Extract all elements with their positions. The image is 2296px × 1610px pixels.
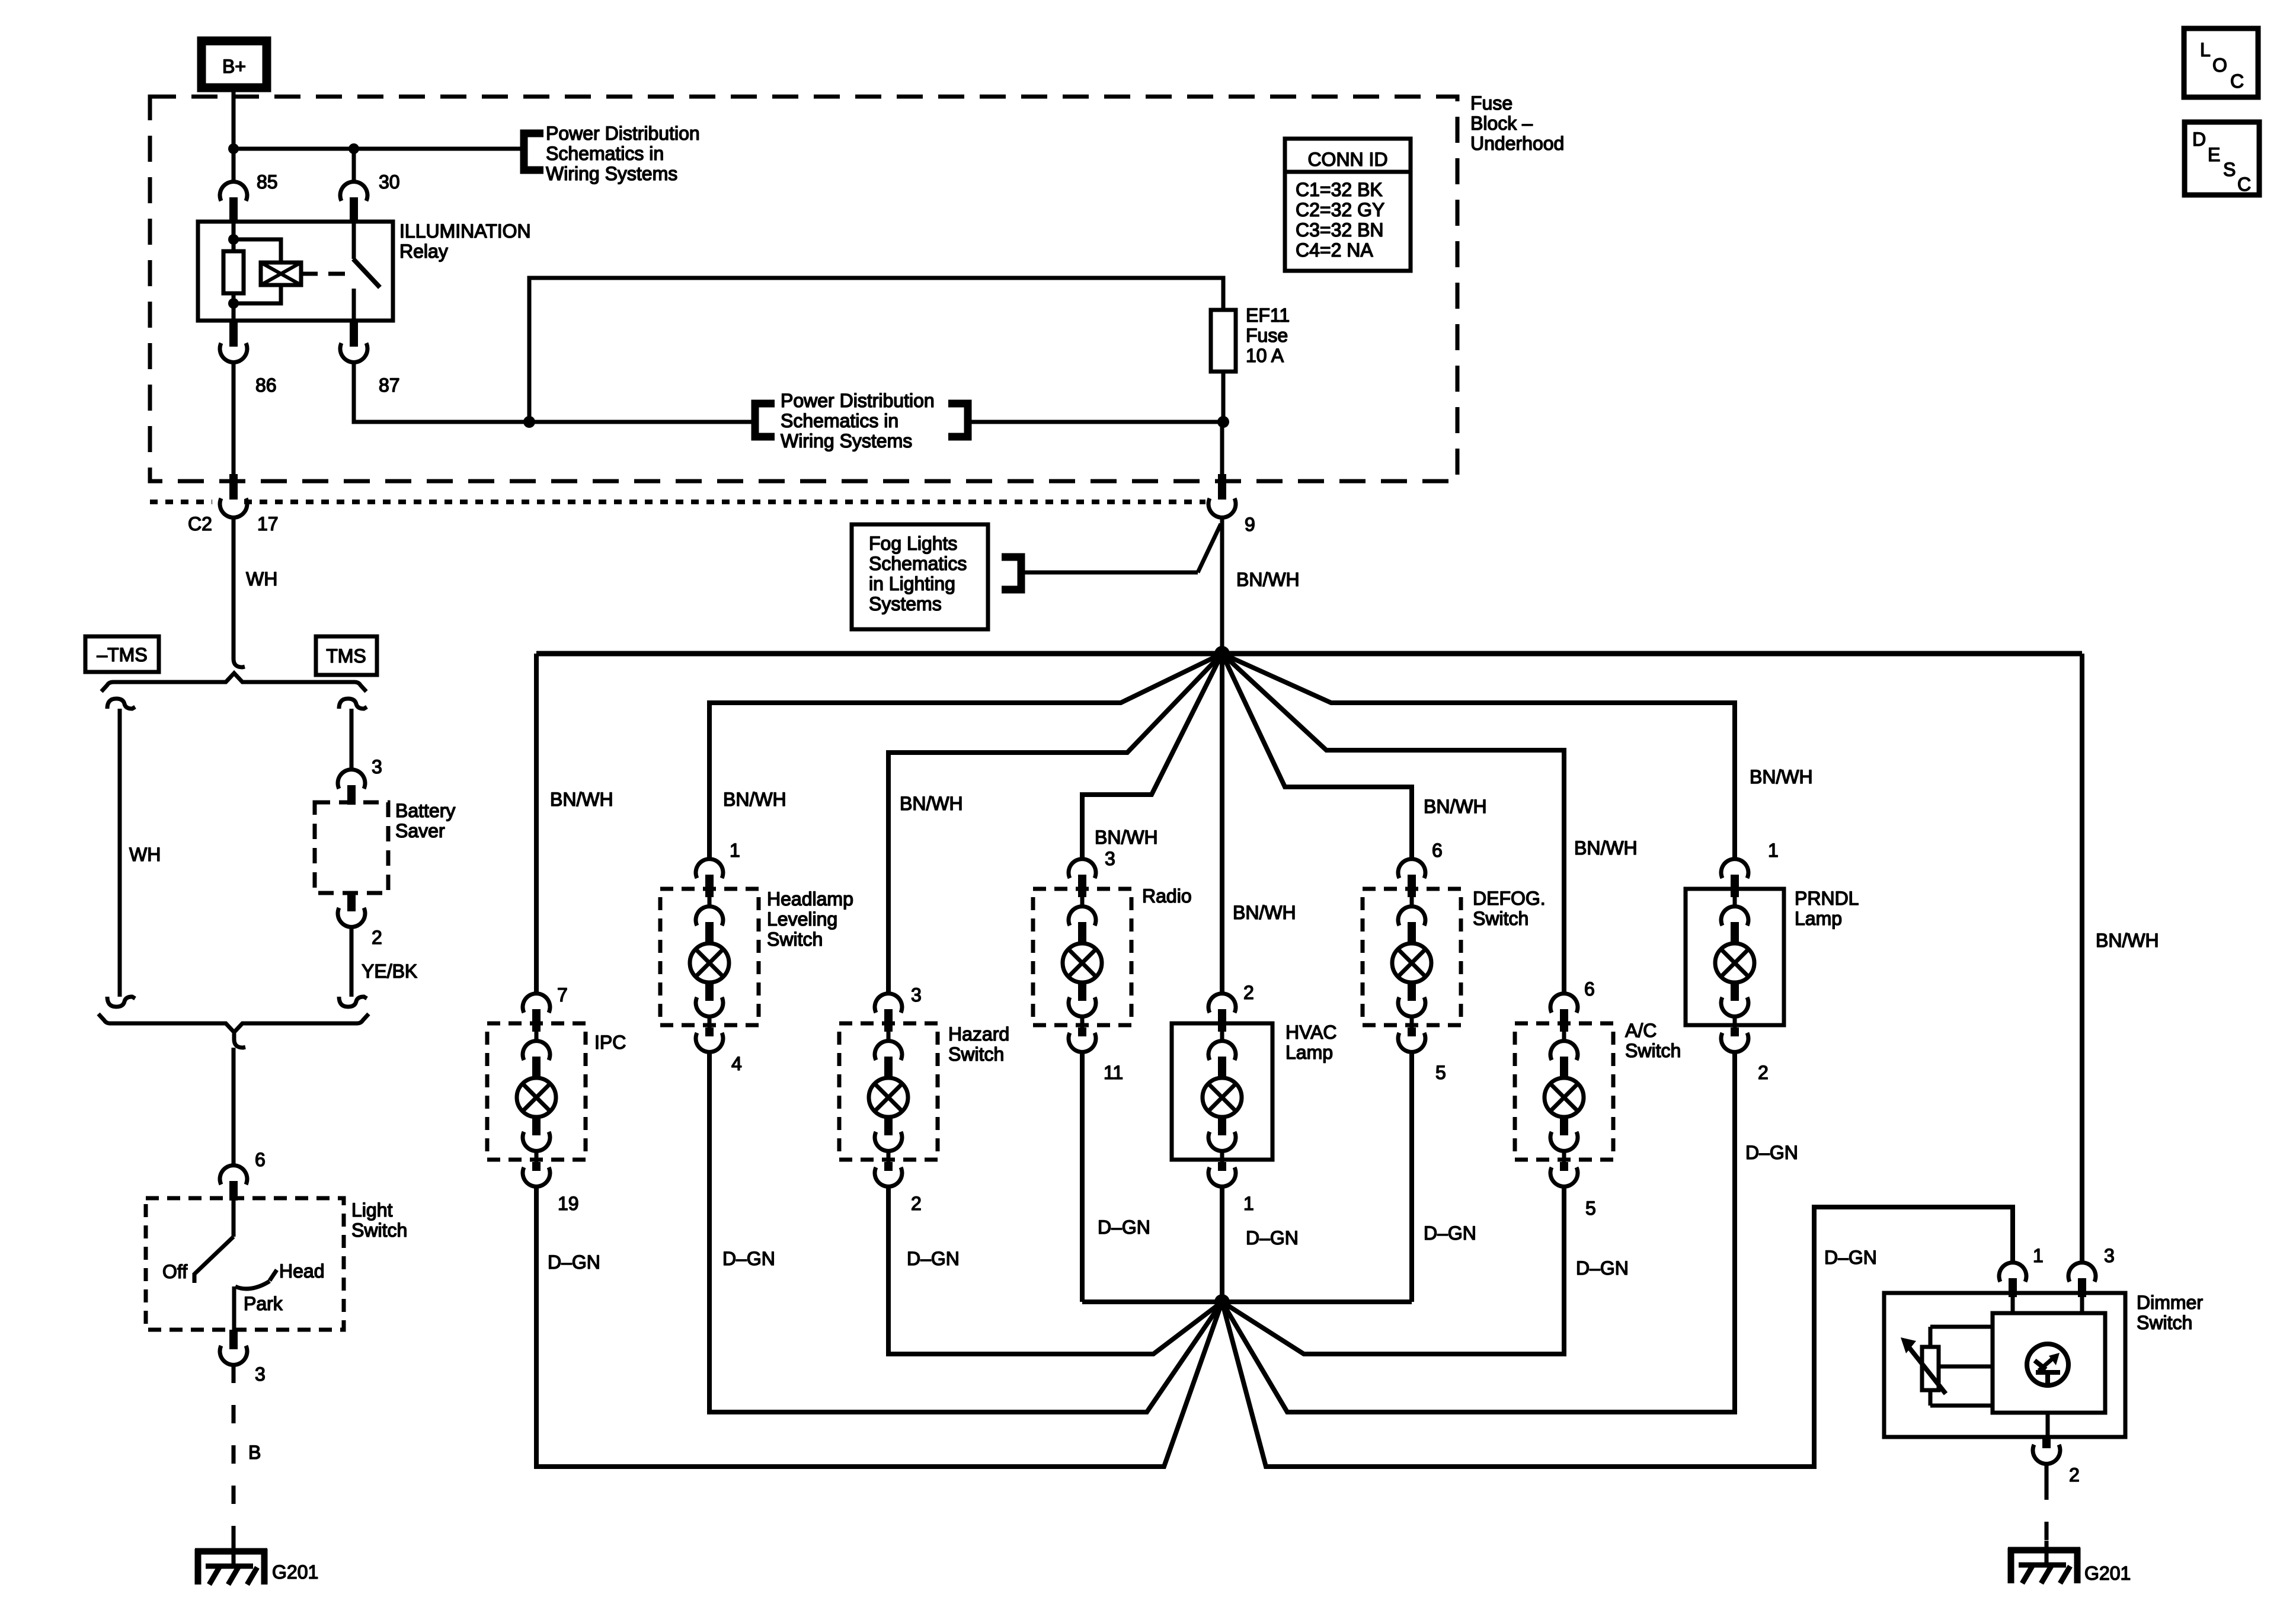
svg-text:3: 3 xyxy=(911,984,922,1006)
connector pin (bottom) of A/C Switch xyxy=(1550,1150,1578,1186)
svg-text:Wiring Systems: Wiring Systems xyxy=(546,163,677,184)
connector C2 terminal 17 xyxy=(220,474,247,517)
distribution splice node (bottom) xyxy=(1214,1294,1230,1310)
svg-text:3: 3 xyxy=(1105,848,1115,869)
svg-text:Lamp: Lamp xyxy=(1285,1042,1333,1063)
connector pin 2 (dimmer switch) xyxy=(2033,1437,2060,1464)
internal connector (bottom) of PRNDL Lamp xyxy=(1721,982,1748,1016)
svg-text:S: S xyxy=(2223,159,2236,180)
svg-text:Park: Park xyxy=(244,1293,283,1314)
svg-text:Lamp: Lamp xyxy=(1795,908,1842,929)
svg-text:B: B xyxy=(248,1442,261,1463)
svg-text:E: E xyxy=(2208,144,2220,165)
svg-text:5: 5 xyxy=(1435,1062,1446,1083)
reference bracket: fog lights xyxy=(1002,557,1021,590)
illumination lamp of PRNDL Lamp xyxy=(1715,943,1754,982)
relay coil resistor xyxy=(223,222,244,321)
connector pin (bottom) of IPC xyxy=(523,1150,550,1186)
wire WH from C2 down xyxy=(232,517,236,659)
svg-text:BN/WH: BN/WH xyxy=(1574,837,1638,859)
light switch wiper blade xyxy=(194,1237,234,1283)
internal connector (bottom) of Radio xyxy=(1069,982,1096,1016)
internal connector (top) of PRNDL Lamp xyxy=(1721,907,1748,943)
left branch splice hook (top) xyxy=(107,699,135,709)
label Hazard Switch xyxy=(948,1023,1009,1065)
junction node at relay pin 30 drop xyxy=(348,143,359,154)
Head contact tick xyxy=(270,1270,277,1281)
connector C2 boundary dotted line xyxy=(150,500,1205,504)
connector pin 85 xyxy=(220,182,247,223)
branch brace (bottom) xyxy=(98,1014,369,1032)
wire: fuse output down to connector pin 9 xyxy=(1220,422,1224,474)
connector pin 30 xyxy=(340,182,367,223)
connector pin (bottom) of Headlamp Leveling Switch xyxy=(696,1015,723,1052)
connector pin 3 (light switch) xyxy=(220,1330,247,1365)
splice hook below merge xyxy=(234,1033,245,1048)
internal connector (bottom) of IPC xyxy=(523,1117,550,1151)
HVAC Lamp box xyxy=(1172,1023,1272,1160)
Light Switch dashed box xyxy=(146,1198,344,1330)
fan wire to PRNDL column xyxy=(1222,654,1735,860)
svg-text:Fuse: Fuse xyxy=(1246,325,1288,346)
wire radio output down xyxy=(1080,1052,1085,1302)
svg-text:2: 2 xyxy=(2069,1464,2080,1486)
fan wire to A/C column xyxy=(1222,654,1564,995)
wire B+ down into fuse block xyxy=(232,85,236,149)
ILLUMINATION Relay box xyxy=(198,222,393,321)
svg-text:1: 1 xyxy=(1243,1193,1254,1214)
svg-text:19: 19 xyxy=(558,1193,579,1214)
svg-text:Switch: Switch xyxy=(948,1044,1004,1065)
battery feed terminal B+ xyxy=(202,41,267,88)
ground G201 (left) xyxy=(195,1549,267,1585)
svg-text:30: 30 xyxy=(379,171,400,193)
svg-text:C: C xyxy=(2237,174,2251,195)
connector pin (top) of Radio xyxy=(1069,859,1096,908)
wire to relay pin 30 xyxy=(352,149,356,183)
internal connector (top) of A/C Switch xyxy=(1550,1041,1578,1078)
svg-text:Switch: Switch xyxy=(2137,1312,2192,1333)
wire: pin 87 down and right xyxy=(354,362,752,422)
svg-text:IPC: IPC xyxy=(594,1032,626,1053)
return wire from headlamp leveling xyxy=(709,1052,1222,1412)
svg-text:Fuse: Fuse xyxy=(1470,92,1512,114)
wire WH left branch xyxy=(118,709,122,997)
svg-text:Power Distribution: Power Distribution xyxy=(781,390,935,411)
wire: fuse to junction xyxy=(1221,372,1226,422)
wire node down to HVAC xyxy=(1220,654,1224,995)
junction node fuse output xyxy=(1217,416,1229,428)
Battery Saver dashed box xyxy=(315,802,388,893)
svg-text:9: 9 xyxy=(1245,514,1255,535)
svg-text:5: 5 xyxy=(1585,1198,1596,1219)
svg-text:D–GN: D–GN xyxy=(548,1251,600,1273)
relay coil bottom tap node xyxy=(228,298,239,309)
LOC reference box xyxy=(2184,28,2258,97)
svg-text:HVAC: HVAC xyxy=(1285,1022,1337,1043)
dimmer output wire xyxy=(2046,1413,2050,1437)
label PRNDL Lamp xyxy=(1795,888,1859,929)
Radio box xyxy=(1033,889,1131,1025)
svg-text:Dimmer: Dimmer xyxy=(2137,1292,2203,1313)
svg-text:3: 3 xyxy=(255,1363,266,1385)
connector pin (bottom) of Radio xyxy=(1069,1015,1096,1052)
svg-text:Switch: Switch xyxy=(767,929,823,950)
illumination lamp of Radio xyxy=(1063,943,1102,982)
collector run radio-DEFOG xyxy=(1082,1299,1412,1304)
svg-text:in Lighting: in Lighting xyxy=(869,573,955,594)
label DEFOG. Switch xyxy=(1473,888,1546,929)
svg-text:BN/WH: BN/WH xyxy=(1424,796,1487,817)
return wire from IPC xyxy=(536,1186,1222,1467)
distribution splice node (top) xyxy=(1214,646,1230,661)
TMS reference box xyxy=(316,636,377,675)
wire to battery saver pin 3 xyxy=(350,709,354,771)
svg-text:BN/WH: BN/WH xyxy=(2096,930,2159,951)
Fuse Block - Underhood dashed outline xyxy=(150,97,1457,481)
wire YE/BK xyxy=(350,927,354,997)
connector pin 9 xyxy=(1208,474,1236,517)
wire: B+ node across to power distribution reference xyxy=(234,147,520,151)
svg-text:C3=32 BN: C3=32 BN xyxy=(1296,219,1384,241)
internal connector (bottom) of Hazard Switch xyxy=(875,1117,902,1151)
DEFOG Switch box xyxy=(1363,889,1461,1025)
connector pin 1 (dimmer switch) xyxy=(1999,1263,2026,1297)
illumination lamp of DEFOG Switch xyxy=(1392,943,1431,982)
label Light Switch xyxy=(351,1199,407,1241)
Headlamp Leveling Switch box xyxy=(660,889,759,1025)
svg-text:3: 3 xyxy=(372,756,382,777)
dimmer output driver symbol xyxy=(2027,1344,2068,1385)
svg-text:6: 6 xyxy=(1432,840,1443,861)
svg-text:Hazard: Hazard xyxy=(948,1023,1009,1045)
svg-text:C2=32 GY: C2=32 GY xyxy=(1296,199,1384,220)
wire: reference to fuse output junction xyxy=(971,420,1223,424)
internal connector (top) of HVAC Lamp xyxy=(1208,1041,1236,1078)
wire to light switch pin 6 xyxy=(232,1048,236,1166)
connector pin (top) of DEFOG Switch xyxy=(1398,859,1425,908)
svg-text:87: 87 xyxy=(379,375,400,396)
svg-text:Fog Lights: Fog Lights xyxy=(869,533,957,554)
connector pin (top) of IPC xyxy=(523,994,550,1042)
svg-text:Switch: Switch xyxy=(351,1219,407,1241)
svg-text:C1=32 BK: C1=32 BK xyxy=(1296,179,1383,200)
svg-text:6: 6 xyxy=(1584,978,1595,1000)
connector pin (top) of PRNDL Lamp xyxy=(1721,859,1748,908)
junction node at B+ drop xyxy=(228,143,239,154)
relay solenoid element xyxy=(261,263,301,285)
internal connector (bottom) of A/C Switch xyxy=(1550,1117,1578,1151)
wire: coil tap to solenoid (bottom) xyxy=(234,283,281,303)
svg-text:Leveling: Leveling xyxy=(767,908,837,930)
illumination lamp of Headlamp Leveling Switch xyxy=(690,943,729,982)
svg-text:ILLUMINATION: ILLUMINATION xyxy=(399,220,531,242)
right branch splice hook (top) xyxy=(339,699,367,709)
fuse EF11 10A xyxy=(1211,310,1236,372)
reference bracket left: Power Distribution (middle) xyxy=(755,404,775,437)
svg-text:Switch: Switch xyxy=(1625,1040,1681,1061)
wire: pin 86 to connector C2 xyxy=(232,362,236,474)
svg-text:D: D xyxy=(2192,129,2206,150)
svg-text:Radio: Radio xyxy=(1142,885,1192,907)
svg-text:10 A: 10 A xyxy=(1246,345,1284,366)
PRNDL Lamp box xyxy=(1686,889,1784,1025)
internal connector (top) of Hazard Switch xyxy=(875,1041,902,1078)
svg-text:Off: Off xyxy=(162,1261,187,1282)
svg-text:O: O xyxy=(2212,55,2227,76)
illumination lamp of Hazard Switch xyxy=(869,1078,908,1117)
Fog Lights reference box xyxy=(852,524,988,629)
svg-text:Head: Head xyxy=(279,1260,325,1282)
svg-text:YE/BK: YE/BK xyxy=(362,961,417,982)
potentiometer adjust arrow xyxy=(1901,1337,1946,1394)
internal connector (bottom) of DEFOG Switch xyxy=(1398,982,1425,1016)
relay actuator dashed link xyxy=(301,272,351,276)
svg-text:2: 2 xyxy=(911,1193,922,1214)
illumination lamp of A/C Switch xyxy=(1544,1078,1584,1117)
svg-text:DEFOG.: DEFOG. xyxy=(1473,888,1546,909)
reference bracket right: Power Distribution (middle) xyxy=(948,404,968,437)
internal connector (top) of DEFOG Switch xyxy=(1398,907,1425,943)
left branch splice hook (bottom) xyxy=(107,997,135,1007)
svg-text:WH: WH xyxy=(129,844,161,865)
svg-text:BN/WH: BN/WH xyxy=(550,789,613,810)
IPC box xyxy=(487,1023,586,1160)
wire to relay pin 85 xyxy=(232,149,236,183)
return wire from PRNDL xyxy=(1222,1052,1735,1412)
label Fog Lights Schematics in Lighting Systems xyxy=(869,533,967,614)
connector pin 2 (battery saver) xyxy=(338,893,365,927)
svg-text:C2: C2 xyxy=(188,513,212,534)
fan wire to radio column xyxy=(1082,654,1222,860)
dimmer control module box xyxy=(1993,1313,2105,1413)
svg-text:G201: G201 xyxy=(2084,1563,2131,1584)
svg-text:Schematics in: Schematics in xyxy=(781,410,898,431)
svg-text:Saver: Saver xyxy=(395,820,445,841)
wire into ground G201 (left) xyxy=(232,1544,236,1566)
svg-text:BN/WH: BN/WH xyxy=(1750,766,1813,788)
svg-text:L: L xyxy=(2200,39,2211,60)
connector pin 86 xyxy=(220,319,247,362)
label Battery Saver xyxy=(395,800,455,841)
label ILLUMINATION Relay xyxy=(399,220,531,262)
label Dimmer Switch xyxy=(2137,1292,2203,1333)
svg-text:D–GN: D–GN xyxy=(722,1248,775,1269)
splice hook at WH wire end xyxy=(234,652,245,667)
connector pin (top) of HVAC Lamp xyxy=(1208,994,1236,1042)
svg-text:2: 2 xyxy=(1243,982,1254,1003)
svg-text:1: 1 xyxy=(730,840,740,861)
svg-text:85: 85 xyxy=(257,171,278,193)
return wire from A/C xyxy=(1222,1186,1564,1354)
DESC reference box xyxy=(2185,122,2259,195)
light switch common wire xyxy=(232,1201,236,1237)
wire dashed to ground (right) xyxy=(2045,1464,2049,1565)
connector pin 3 (dimmer switch) xyxy=(2068,1263,2096,1297)
svg-text:Schematics: Schematics xyxy=(869,553,967,574)
svg-text:C: C xyxy=(2230,71,2244,92)
dimmer internal input wires xyxy=(2013,1297,2082,1313)
label A/C Switch xyxy=(1625,1020,1681,1061)
connector pin (bottom) of HVAC Lamp xyxy=(1208,1150,1236,1186)
wire: fog lights tap xyxy=(1025,524,1221,572)
CONN ID table xyxy=(1285,139,1411,271)
connector pin (top) of Hazard Switch xyxy=(875,994,902,1042)
connector pin (bottom) of Hazard Switch xyxy=(875,1150,902,1186)
svg-text:BN/WH: BN/WH xyxy=(1095,827,1158,848)
fan wire to DEFOG column xyxy=(1222,654,1412,860)
svg-text:Headlamp: Headlamp xyxy=(767,888,853,910)
label Headlamp Leveling Switch xyxy=(767,888,853,950)
svg-text:D–GN: D–GN xyxy=(907,1248,960,1269)
svg-text:17: 17 xyxy=(257,513,279,534)
svg-text:TMS: TMS xyxy=(326,645,366,667)
label Power Distribution Schematics in Wiring Systems (middle) xyxy=(781,390,935,452)
svg-text:1: 1 xyxy=(1768,840,1779,861)
BN/WH distribution bus xyxy=(536,651,2082,657)
dimmer potentiometer xyxy=(1922,1327,1993,1406)
label Power Distribution Schematics in Wiring Systems (top) xyxy=(546,123,700,184)
Dimmer Switch box xyxy=(1884,1293,2125,1437)
label EF11 Fuse 10 A xyxy=(1246,305,1290,366)
wire BN/WH from pin 9 to distribution node xyxy=(1220,517,1224,654)
svg-text:Light: Light xyxy=(351,1199,393,1221)
branch brace (top) xyxy=(101,673,366,692)
return wire from hazard xyxy=(888,1186,1222,1354)
svg-text:Battery: Battery xyxy=(395,800,455,821)
label HVAC Lamp xyxy=(1285,1022,1337,1063)
connector pin (top) of A/C Switch xyxy=(1550,994,1578,1042)
svg-text:11: 11 xyxy=(1104,1062,1123,1083)
svg-text:CONN ID: CONN ID xyxy=(1307,149,1387,170)
connector pin (bottom) of DEFOG Switch xyxy=(1398,1015,1425,1052)
svg-text:4: 4 xyxy=(731,1053,742,1074)
svg-text:D–GN: D–GN xyxy=(1246,1227,1299,1249)
relay coil top tap node xyxy=(228,234,239,245)
svg-text:BN/WH: BN/WH xyxy=(900,793,963,814)
svg-text:Switch: Switch xyxy=(1473,908,1528,929)
illumination lamp of IPC xyxy=(517,1078,556,1117)
fan wire to headlamp leveling column xyxy=(709,654,1222,860)
right branch splice hook (bottom) xyxy=(339,997,367,1007)
svg-text:A/C: A/C xyxy=(1625,1020,1657,1041)
return wire to dimmer switch pin 1 xyxy=(1222,1207,2013,1467)
svg-text:2: 2 xyxy=(372,927,382,948)
svg-text:Wiring Systems: Wiring Systems xyxy=(781,430,912,452)
svg-text:–TMS: –TMS xyxy=(97,644,147,665)
svg-text:BN/WH: BN/WH xyxy=(723,789,786,810)
svg-text:1: 1 xyxy=(2033,1245,2044,1266)
svg-text:Block –: Block – xyxy=(1470,113,1533,134)
svg-text:D–GN: D–GN xyxy=(1824,1247,1877,1268)
svg-text:7: 7 xyxy=(557,984,568,1006)
svg-text:D–GN: D–GN xyxy=(1576,1257,1629,1279)
svg-text:Relay: Relay xyxy=(399,241,448,262)
connector pin 6 (light switch) xyxy=(220,1166,247,1201)
wire bus end down to dimmer pin 3 xyxy=(2080,654,2084,1264)
wire bus end down to IPC xyxy=(534,654,539,995)
svg-text:Schematics in: Schematics in xyxy=(546,143,664,164)
label Fuse Block - Underhood xyxy=(1470,92,1564,154)
wire HVAC output down xyxy=(1220,1186,1224,1302)
-TMS reference box xyxy=(85,636,159,672)
svg-text:Systems: Systems xyxy=(869,593,942,614)
wire: coil tap to solenoid (top) xyxy=(234,239,281,264)
reference bracket: Power Distribution (top) xyxy=(524,133,543,170)
svg-text:D–GN: D–GN xyxy=(1424,1222,1476,1244)
svg-text:B+: B+ xyxy=(222,56,246,77)
svg-text:G201: G201 xyxy=(272,1561,318,1583)
svg-text:D–GN: D–GN xyxy=(1098,1217,1150,1238)
connector pin (bottom) of PRNDL Lamp xyxy=(1721,1015,1748,1052)
connector pin 87 xyxy=(340,319,367,362)
illumination lamp of HVAC Lamp xyxy=(1203,1078,1242,1117)
internal connector (top) of Headlamp Leveling Switch xyxy=(696,907,723,943)
connector pin (top) of Headlamp Leveling Switch xyxy=(696,859,723,908)
connector pin 3 (battery saver) xyxy=(338,770,365,805)
svg-text:PRNDL: PRNDL xyxy=(1795,888,1859,909)
svg-text:WH: WH xyxy=(246,568,277,590)
light switch output wire xyxy=(232,1286,236,1330)
svg-text:C4=2 NA: C4=2 NA xyxy=(1296,239,1373,261)
internal connector (bottom) of Headlamp Leveling Switch xyxy=(696,982,723,1016)
relay switch xyxy=(353,222,380,321)
A/C Switch box xyxy=(1515,1023,1613,1160)
svg-text:6: 6 xyxy=(255,1149,266,1170)
wire B dashed to ground xyxy=(232,1365,236,1544)
wire DEFOG output down xyxy=(1409,1052,1414,1302)
svg-text:3: 3 xyxy=(2104,1245,2115,1266)
svg-text:Underhood: Underhood xyxy=(1470,133,1564,154)
svg-text:BN/WH: BN/WH xyxy=(1236,569,1300,590)
svg-text:EF11: EF11 xyxy=(1246,305,1290,326)
svg-text:Power Distribution: Power Distribution xyxy=(546,123,700,144)
svg-text:2: 2 xyxy=(1758,1062,1769,1083)
internal connector (top) of IPC xyxy=(523,1041,550,1078)
svg-text:D–GN: D–GN xyxy=(1745,1142,1798,1163)
wire: riser to top run xyxy=(529,278,1223,422)
wiper travel curve to Park xyxy=(235,1281,270,1289)
junction node riser xyxy=(523,416,535,428)
ground G201 (right) xyxy=(2008,1548,2080,1583)
svg-text:BN/WH: BN/WH xyxy=(1233,902,1296,923)
Hazard Switch box xyxy=(839,1023,938,1160)
fan wire to hazard column xyxy=(888,654,1222,995)
svg-text:86: 86 xyxy=(255,375,277,396)
internal connector (top) of Radio xyxy=(1069,907,1096,943)
internal connector (bottom) of HVAC Lamp xyxy=(1208,1117,1236,1151)
